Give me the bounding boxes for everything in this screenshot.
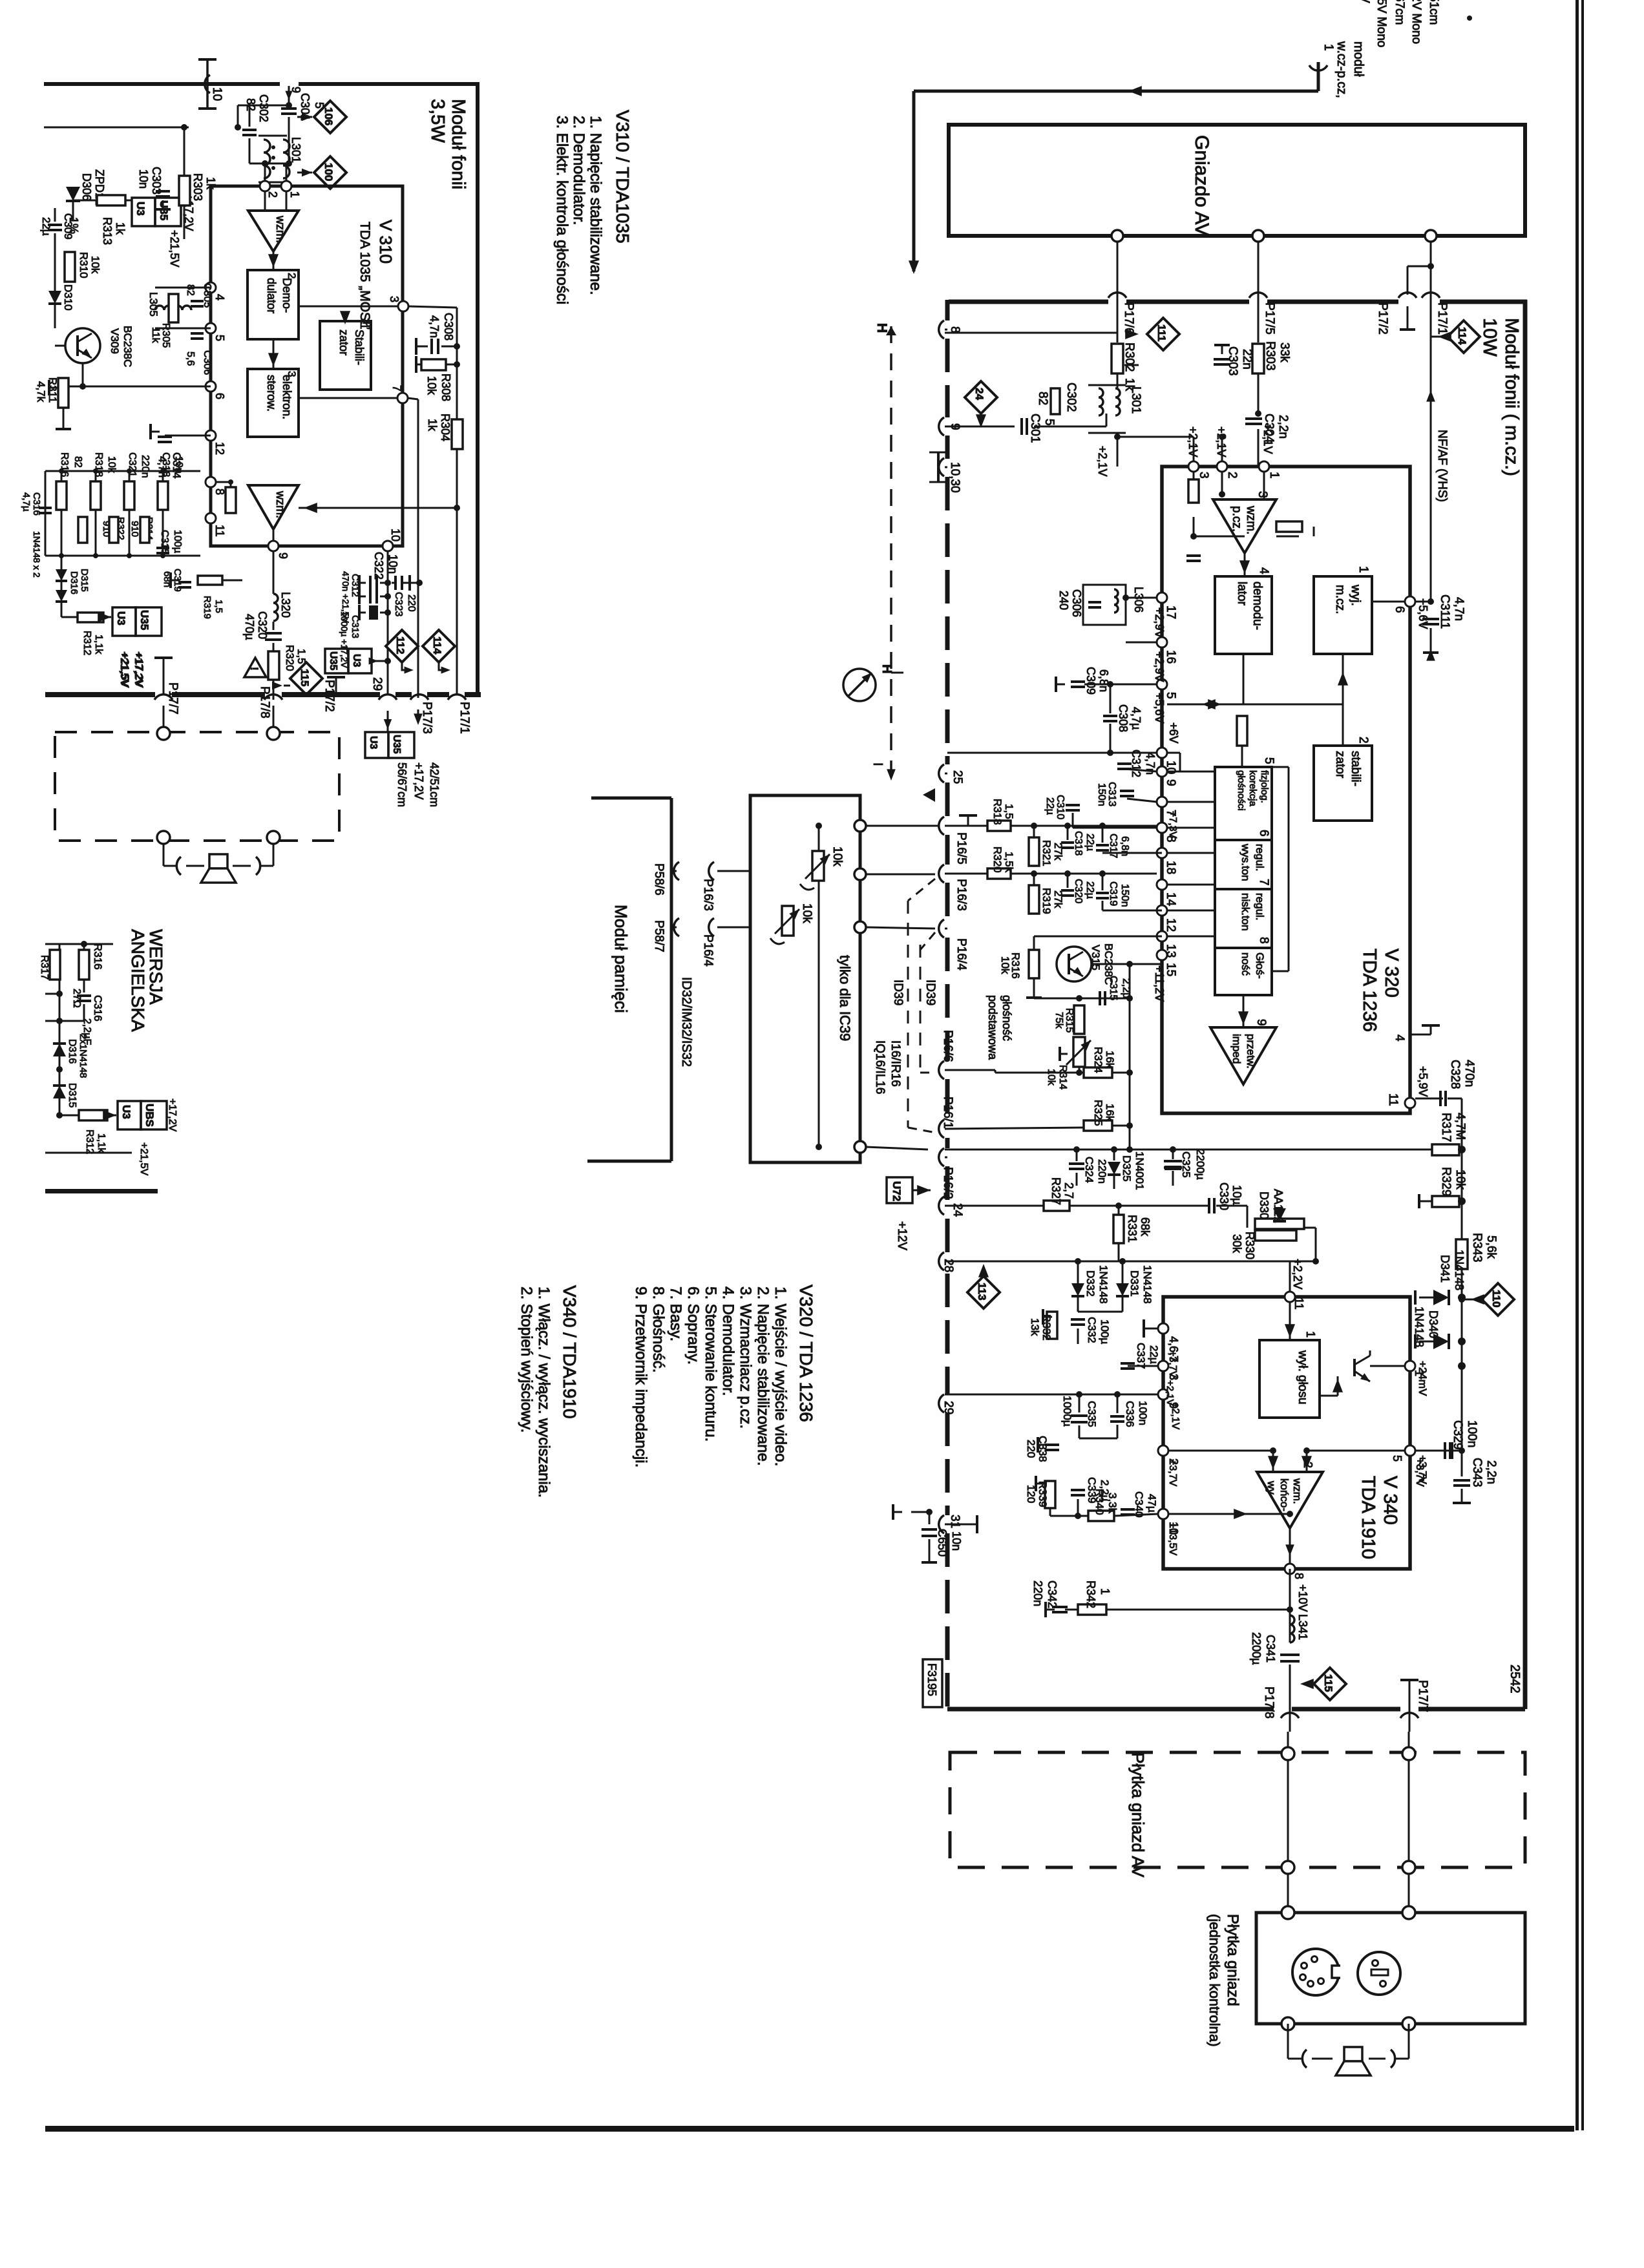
svg-text:+2,1V: +2,1V <box>1096 446 1109 477</box>
svg-text:C302: C302 <box>1064 383 1078 412</box>
svg-text:1k: 1k <box>204 177 217 190</box>
svg-text:C303: C303 <box>150 167 163 194</box>
svg-text:3: 3 <box>1256 491 1269 498</box>
svg-text:U3: U3 <box>120 1105 132 1119</box>
svg-text:Gniazdo AV: Gniazdo AV <box>1191 135 1212 236</box>
svg-text:1. Napięcie stabilizowane.: 1. Napięcie stabilizowane. <box>587 116 604 295</box>
svg-text:C3111: C3111 <box>1438 594 1451 629</box>
svg-text:2x1N4148: 2x1N4148 <box>78 1034 89 1078</box>
svg-text:7. Basy.: 7. Basy. <box>667 1286 684 1341</box>
svg-text:25: 25 <box>951 770 964 784</box>
svg-text:9: 9 <box>277 552 290 559</box>
svg-text:12: 12 <box>1164 918 1177 932</box>
svg-text:U35: U35 <box>328 651 339 670</box>
svg-text:R319: R319 <box>1040 888 1053 914</box>
svg-text:R302: R302 <box>1122 342 1136 372</box>
svg-text:L320: L320 <box>279 592 292 618</box>
svg-text:4,7µ: 4,7µ <box>1130 707 1143 730</box>
svg-text:+10V: +10V <box>1296 1584 1309 1612</box>
svg-text:końco-: końco- <box>1278 1478 1291 1511</box>
svg-text:R342: R342 <box>1084 1580 1097 1608</box>
svg-text:R340: R340 <box>1093 1489 1106 1515</box>
svg-text:10k: 10k <box>800 903 814 923</box>
svg-text:9: 9 <box>1164 779 1177 786</box>
svg-text:C313: C313 <box>350 615 361 638</box>
svg-text:1N4148: 1N4148 <box>1097 1265 1110 1304</box>
svg-text:P16/3: P16/3 <box>954 879 968 911</box>
svg-text:wzm.: wzm. <box>1244 505 1258 534</box>
svg-text:2: 2 <box>1356 737 1370 744</box>
svg-text:150n: 150n <box>1096 783 1107 806</box>
svg-text:C305: C305 <box>202 283 213 308</box>
svg-text:R315: R315 <box>1064 1008 1075 1033</box>
svg-text:+2,2V: +2,2V <box>1291 1259 1304 1290</box>
svg-text:P58/6: P58/6 <box>652 863 666 896</box>
svg-text:10k: 10k <box>999 956 1011 974</box>
svg-text:TDA 1035 „MOS!”: TDA 1035 „MOS!” <box>357 222 372 330</box>
svg-text:+3,7V: +3,7V <box>1417 1455 1429 1485</box>
svg-text:demodu-: demodu- <box>1250 582 1264 630</box>
svg-text:2: 2 <box>266 191 279 198</box>
svg-text:R318: R318 <box>991 799 1004 825</box>
svg-text:22n: 22n <box>1240 349 1254 370</box>
svg-text:3: 3 <box>286 371 298 377</box>
svg-text:L341: L341 <box>1296 1614 1309 1640</box>
svg-text:1,1k: 1,1k <box>93 635 104 655</box>
svg-text:10µ: 10µ <box>1230 1185 1243 1204</box>
svg-text:14: 14 <box>1164 892 1177 907</box>
svg-text:P16/3: P16/3 <box>701 879 715 911</box>
svg-text:16k: 16k <box>1104 1051 1116 1069</box>
svg-text:2,7: 2,7 <box>1062 1182 1075 1199</box>
svg-text:stabili-: stabili- <box>1349 751 1362 786</box>
svg-text:8: 8 <box>1292 1573 1305 1579</box>
svg-text:82: 82 <box>72 456 83 468</box>
svg-text:TDA 1236: TDA 1236 <box>1359 949 1380 1032</box>
svg-text:R304: R304 <box>439 414 452 441</box>
svg-text:12: 12 <box>213 442 226 455</box>
svg-text:U35: U35 <box>138 610 151 630</box>
svg-text:C316: C316 <box>31 492 42 516</box>
svg-text:3: 3 <box>1197 472 1210 479</box>
svg-text:3,5W: 3,5W <box>427 99 448 143</box>
svg-text:4,7k: 4,7k <box>35 381 47 403</box>
svg-text:100µ: 100µ <box>1099 1319 1111 1344</box>
svg-text:L301: L301 <box>1129 386 1143 414</box>
svg-text:Moduł fonii ( m.cz.): Moduł fonii ( m.cz.) <box>1501 318 1522 476</box>
svg-text:10k: 10k <box>1453 1170 1467 1190</box>
svg-text:+21,5V: +21,5V <box>138 1142 149 1175</box>
svg-text:R325: R325 <box>1092 1100 1104 1126</box>
svg-text:wy: wy <box>1265 1480 1278 1495</box>
svg-text:220n: 220n <box>140 455 151 478</box>
svg-text:22µ: 22µ <box>1044 797 1055 815</box>
svg-text:U3: U3 <box>115 611 127 625</box>
svg-text:+24mV: +24mV <box>1417 1361 1429 1396</box>
svg-text:C342: C342 <box>1046 1580 1059 1608</box>
svg-text:p.cz.: p.cz. <box>1230 506 1243 532</box>
svg-text:22µ: 22µ <box>1084 881 1095 899</box>
svg-text:IQ16/IL16: IQ16/IL16 <box>873 1040 887 1094</box>
svg-text:tylko dla IC39: tylko dla IC39 <box>837 955 853 1041</box>
svg-text:U3: U3 <box>134 202 147 216</box>
svg-text:+7,3V: +7,3V <box>1167 811 1178 839</box>
svg-text:1: 1 <box>1304 1331 1317 1338</box>
svg-text:10k: 10k <box>1046 1069 1057 1086</box>
svg-text:240: 240 <box>1057 591 1070 610</box>
svg-text:ID39: ID39 <box>923 980 937 1005</box>
svg-text:R319: R319 <box>202 596 213 619</box>
svg-text:P17/8: P17/8 <box>1262 1686 1276 1719</box>
svg-text:regul.: regul. <box>1254 844 1266 872</box>
svg-text:nisk.ton: nisk.ton <box>1239 893 1252 931</box>
svg-text:31: 31 <box>948 1515 962 1528</box>
svg-text:D315: D315 <box>67 1083 78 1108</box>
svg-text:1N4001: 1N4001 <box>1133 1151 1146 1190</box>
svg-text:3. Wzmacniacz p.cz.: 3. Wzmacniacz p.cz. <box>737 1286 754 1429</box>
svg-text:1,5k: 1,5k <box>1003 852 1015 873</box>
svg-text:6: 6 <box>1393 606 1406 613</box>
svg-text:C319: C319 <box>1108 881 1119 906</box>
svg-text:5,6: 5,6 <box>185 352 196 366</box>
svg-text:100n: 100n <box>1465 1420 1479 1447</box>
svg-text:P17/1: P17/1 <box>1435 302 1449 335</box>
svg-text:C328: C328 <box>1448 1060 1462 1089</box>
svg-text:75k: 75k <box>1053 1012 1064 1029</box>
svg-text:Płytka gniazd: Płytka gniazd <box>1224 1914 1241 2006</box>
svg-text:+17,2V: +17,2V <box>132 651 145 687</box>
svg-text:67cm: 67cm <box>1393 0 1406 25</box>
svg-text:82: 82 <box>185 284 196 296</box>
svg-text:4. Demodulator.: 4. Demodulator. <box>719 1286 737 1396</box>
svg-text:1: 1 <box>1099 1588 1112 1595</box>
svg-text:8: 8 <box>1257 937 1270 944</box>
svg-text:2200µ: 2200µ <box>1250 1632 1263 1664</box>
svg-text:C324: C324 <box>1083 1157 1095 1183</box>
svg-text:R331: R331 <box>1126 1215 1139 1243</box>
svg-text:P17/2: P17/2 <box>1376 302 1389 335</box>
svg-text:4,7n: 4,7n <box>1452 597 1466 621</box>
svg-text:2,2n: 2,2n <box>1276 415 1290 439</box>
svg-text:C306: C306 <box>202 350 213 375</box>
svg-text:4: 4 <box>1393 1034 1406 1042</box>
svg-text:R317: R317 <box>1439 1113 1453 1142</box>
svg-text:10n: 10n <box>173 456 184 474</box>
svg-text:910: 910 <box>129 521 140 537</box>
svg-text:+2,1V: +2,1V <box>1261 423 1274 454</box>
svg-text:U72: U72 <box>890 1181 903 1201</box>
svg-text:R320: R320 <box>991 846 1004 873</box>
svg-text:6,8n: 6,8n <box>1097 669 1110 692</box>
svg-text:R324: R324 <box>1092 1047 1104 1073</box>
svg-text:115: 115 <box>299 669 311 686</box>
svg-text:+21,5V: +21,5V <box>118 651 131 687</box>
svg-text:P58/7: P58/7 <box>652 920 666 952</box>
svg-text:5: 5 <box>1262 757 1276 764</box>
svg-text:C343: C343 <box>1470 1458 1484 1487</box>
svg-text:5: 5 <box>1042 419 1056 426</box>
svg-text:+5,6V: +5,6V <box>1153 693 1166 724</box>
svg-text:R327: R327 <box>1049 1177 1062 1205</box>
svg-text:C308: C308 <box>1117 704 1130 732</box>
svg-text:TDA 1910: TDA 1910 <box>1358 1476 1378 1559</box>
svg-text:100: 100 <box>322 163 335 181</box>
svg-text:C320: C320 <box>256 611 269 639</box>
svg-text:1: 1 <box>288 191 301 198</box>
svg-text:10n: 10n <box>137 169 150 189</box>
svg-text:,5V Mono: ,5V Mono <box>1375 0 1388 47</box>
svg-text:C303: C303 <box>1226 346 1239 375</box>
svg-text:lator: lator <box>1235 582 1249 606</box>
svg-text:P17/5: P17/5 <box>1263 302 1276 335</box>
svg-text:R320: R320 <box>284 645 296 671</box>
svg-text:w.cz-p.cz,: w.cz-p.cz, <box>1334 41 1349 98</box>
svg-text:C313: C313 <box>1106 782 1117 806</box>
svg-text:100µ: 100µ <box>172 530 183 553</box>
svg-text:ID32/IM32/IS32: ID32/IM32/IS32 <box>679 977 693 1067</box>
svg-text:L301: L301 <box>290 137 302 163</box>
svg-text:V315: V315 <box>1090 945 1102 971</box>
svg-text:D315: D315 <box>79 569 90 592</box>
svg-text:+3,7V: +3,7V <box>1167 1459 1178 1487</box>
svg-text:112: 112 <box>394 636 406 654</box>
svg-text:R330: R330 <box>1243 1232 1256 1259</box>
svg-text:R305: R305 <box>160 323 171 348</box>
svg-text:4,7M: 4,7M <box>1453 1113 1467 1140</box>
svg-text:68k: 68k <box>1139 1217 1152 1237</box>
svg-text:C650: C650 <box>936 1529 949 1557</box>
svg-text:1N4148: 1N4148 <box>1453 1250 1466 1290</box>
svg-text:BC238C: BC238C <box>121 326 134 367</box>
svg-text:1: 1 <box>358 323 370 329</box>
svg-text:C341: C341 <box>1264 1635 1277 1663</box>
svg-text:10k: 10k <box>830 846 844 866</box>
svg-text:24: 24 <box>973 388 985 400</box>
svg-text:1: 1 <box>1322 44 1335 51</box>
svg-text:C317: C317 <box>1108 834 1119 858</box>
svg-text:wys.ton: wys.ton <box>1239 843 1252 881</box>
svg-text:D310: D310 <box>62 284 74 311</box>
svg-text:sterow.: sterow. <box>265 375 278 412</box>
svg-text:5,6k: 5,6k <box>1484 1235 1498 1259</box>
svg-text:+13,5V: +13,5V <box>1167 1522 1178 1555</box>
svg-text:R310: R310 <box>78 252 90 278</box>
svg-text:22µ: 22µ <box>1148 1345 1160 1364</box>
svg-text:Głoś-: Głoś- <box>1254 952 1266 979</box>
svg-text:R321: R321 <box>1040 840 1053 866</box>
svg-text:H: H <box>874 323 889 333</box>
svg-text:5: 5 <box>1391 1455 1404 1462</box>
svg-text:47µ: 47µ <box>1146 1494 1158 1513</box>
svg-text:Płytka gniazd AV: Płytka gniazd AV <box>1128 1752 1148 1878</box>
svg-text:WERSJA: WERSJA <box>146 929 166 1005</box>
svg-text:4: 4 <box>213 294 226 300</box>
svg-text:C322: C322 <box>372 552 385 580</box>
svg-text:2200µ: 2200µ <box>1194 1149 1207 1180</box>
svg-text:1k: 1k <box>426 419 439 432</box>
svg-text:D316: D316 <box>67 1039 78 1064</box>
svg-text:D331: D331 <box>1128 1270 1141 1297</box>
svg-text:V 310: V 310 <box>376 220 395 264</box>
svg-text:wzm.: wzm. <box>274 215 287 243</box>
svg-text:moduł: moduł <box>1351 41 1365 77</box>
svg-text:11: 11 <box>213 525 226 537</box>
svg-text:P16/1: P16/1 <box>941 1097 954 1129</box>
svg-text:113: 113 <box>976 1283 988 1300</box>
svg-text:ID39: ID39 <box>891 980 905 1005</box>
svg-text:29: 29 <box>942 1401 955 1414</box>
svg-text:100n: 100n <box>1137 1401 1149 1425</box>
svg-text:51cm: 51cm <box>1427 0 1440 25</box>
svg-text:V309: V309 <box>109 328 121 354</box>
svg-text:C316: C316 <box>92 995 104 1022</box>
svg-text:470µ: 470µ <box>243 614 256 640</box>
svg-text:2,2n: 2,2n <box>1484 1460 1498 1484</box>
svg-text:1000µ: 1000µ <box>1061 1396 1073 1427</box>
svg-text:2. Demodulator.: 2. Demodulator. <box>570 116 587 225</box>
svg-text:2: 2 <box>1225 472 1239 479</box>
svg-text:+2,9V: +2,9V <box>1153 607 1166 638</box>
svg-text:regul.: regul. <box>1254 893 1266 921</box>
svg-text:110: 110 <box>1490 1290 1502 1307</box>
svg-text:ność: ność <box>1239 952 1252 976</box>
svg-text:R343: R343 <box>1470 1233 1484 1262</box>
svg-text:114: 114 <box>431 636 443 655</box>
svg-text:D340: D340 <box>1427 1310 1440 1338</box>
svg-text:1,5: 1,5 <box>213 600 224 613</box>
svg-text:V340 / TDA1910: V340 / TDA1910 <box>560 1285 580 1419</box>
svg-text:82: 82 <box>1036 392 1049 405</box>
svg-text:8: 8 <box>213 488 226 495</box>
svg-text:2. Napięcie stabilizowane.: 2. Napięcie stabilizowane. <box>754 1286 772 1466</box>
svg-text:22µ: 22µ <box>40 217 52 236</box>
svg-text:R314: R314 <box>1057 1065 1068 1089</box>
svg-text:C325: C325 <box>1180 1151 1192 1178</box>
svg-text:C309: C309 <box>62 213 74 240</box>
svg-text:C312: C312 <box>1130 750 1143 777</box>
svg-text:V: V <box>1358 0 1371 3</box>
svg-text:6. Soprany.: 6. Soprany. <box>684 1286 702 1365</box>
svg-text:+3,7V: +3,7V <box>1167 1350 1178 1378</box>
svg-text:+2,1V: +2,1V <box>1170 1402 1181 1430</box>
svg-text:C318: C318 <box>1073 831 1084 856</box>
svg-text:1. Włącz. / wyłącz. wyciszani: 1. Włącz. / wyłącz. wyciszania. <box>535 1286 553 1498</box>
svg-text:P17/7: P17/7 <box>166 682 180 715</box>
svg-text:C306: C306 <box>1070 589 1083 617</box>
svg-text:82: 82 <box>244 98 257 111</box>
svg-text:P17/3: P17/3 <box>420 702 434 734</box>
svg-text:wył. głosu: wył. głosu <box>1296 1350 1309 1404</box>
svg-text:ANGIELSKA: ANGIELSKA <box>128 929 148 1032</box>
svg-text:P17/6: P17/6 <box>1122 302 1135 335</box>
svg-text:R329: R329 <box>1439 1167 1453 1196</box>
svg-text:+5,9V: +5,9V <box>1417 1066 1429 1097</box>
svg-text:42/51cm: 42/51cm <box>428 762 441 807</box>
svg-text:R313: R313 <box>101 217 114 245</box>
svg-text:1k: 1k <box>114 222 127 235</box>
svg-text:D341: D341 <box>1438 1255 1451 1283</box>
svg-text:NF/AF (VHS): NF/AF (VHS) <box>1435 430 1449 502</box>
svg-text:imped: imped <box>1230 1034 1243 1064</box>
svg-text:R312: R312 <box>81 631 92 655</box>
svg-text:C336: C336 <box>1124 1401 1136 1427</box>
svg-text:wzm.: wzm. <box>1291 1478 1303 1504</box>
svg-text:Moduł pamięci: Moduł pamięci <box>611 905 631 1013</box>
svg-text:470n: 470n <box>1462 1060 1476 1087</box>
svg-text:6: 6 <box>213 393 226 399</box>
svg-text:zator: zator <box>1333 751 1347 779</box>
svg-text:P16/6: P16/6 <box>941 1030 954 1062</box>
svg-text:+21,5V: +21,5V <box>168 230 181 268</box>
svg-text:3. Elektr. kontrola głośnośc: 3. Elektr. kontrola głośności <box>553 116 571 304</box>
svg-text:30k: 30k <box>1230 1234 1243 1254</box>
svg-text:P16/5: P16/5 <box>954 832 968 865</box>
svg-text:7: 7 <box>1257 879 1270 886</box>
svg-text:10k: 10k <box>106 456 117 474</box>
svg-text:P17/8: P17/8 <box>258 686 271 719</box>
svg-text:115: 115 <box>1322 1674 1334 1692</box>
svg-text:4: 4 <box>1257 567 1270 574</box>
svg-text:27k: 27k <box>1052 890 1064 908</box>
svg-text:220n: 220n <box>1096 1159 1108 1184</box>
svg-text:111: 111 <box>1155 324 1168 342</box>
svg-text:10k: 10k <box>89 256 101 274</box>
svg-text:C310: C310 <box>1055 795 1066 819</box>
svg-text:C301: C301 <box>1028 414 1042 443</box>
svg-text:V 340: V 340 <box>1380 1476 1400 1525</box>
svg-text:fizjolog.: fizjolog. <box>1259 770 1270 803</box>
svg-text:+17,2V: +17,2V <box>412 762 425 800</box>
svg-text:10: 10 <box>389 529 402 541</box>
svg-text:3: 3 <box>388 296 401 302</box>
svg-text:+12V: +12V <box>895 1221 909 1250</box>
svg-text:C315: C315 <box>1108 976 1119 1000</box>
svg-text:C323: C323 <box>393 592 404 616</box>
svg-text:D306: D306 <box>80 173 93 201</box>
svg-text:33k: 33k <box>1278 342 1291 362</box>
svg-text:106: 106 <box>322 107 335 125</box>
svg-text:I16/IR16: I16/IR16 <box>889 1040 902 1087</box>
svg-text:P16/4: P16/4 <box>954 938 968 971</box>
svg-text:+2,9V: +2,9V <box>1153 651 1166 682</box>
svg-text:C308: C308 <box>442 313 455 341</box>
svg-text:16k: 16k <box>1104 1104 1116 1122</box>
svg-text:zator: zator <box>337 330 350 355</box>
svg-text:przetw.: przetw. <box>1245 1034 1257 1069</box>
svg-text:C335: C335 <box>1086 1401 1098 1427</box>
svg-text:1,1k: 1,1k <box>96 1133 107 1153</box>
svg-text:1N4148: 1N4148 <box>1413 1307 1426 1347</box>
svg-text:UBS: UBS <box>143 1104 156 1127</box>
svg-text:114: 114 <box>1456 327 1468 345</box>
svg-text:Stabili-: Stabili- <box>353 330 366 365</box>
svg-text:głośność: głośność <box>1000 995 1013 1041</box>
svg-text:C337: C337 <box>1135 1343 1147 1369</box>
svg-text:AA112: AA112 <box>1272 1189 1285 1223</box>
svg-text:!: ! <box>248 667 260 671</box>
svg-text:C315: C315 <box>159 530 170 554</box>
svg-text:P16/4: P16/4 <box>701 934 715 967</box>
svg-text:1: 1 <box>1356 566 1370 573</box>
svg-text:Demo-: Demo- <box>280 278 293 313</box>
svg-text:korekcja: korekcja <box>1247 770 1258 807</box>
svg-text:podstawowa: podstawowa <box>986 995 999 1060</box>
svg-text:R303: R303 <box>191 173 204 201</box>
svg-text:150n: 150n <box>1119 884 1130 907</box>
svg-text:C320: C320 <box>1073 879 1084 903</box>
svg-text:L305: L305 <box>147 292 160 317</box>
svg-text:10,30: 10,30 <box>948 462 962 493</box>
